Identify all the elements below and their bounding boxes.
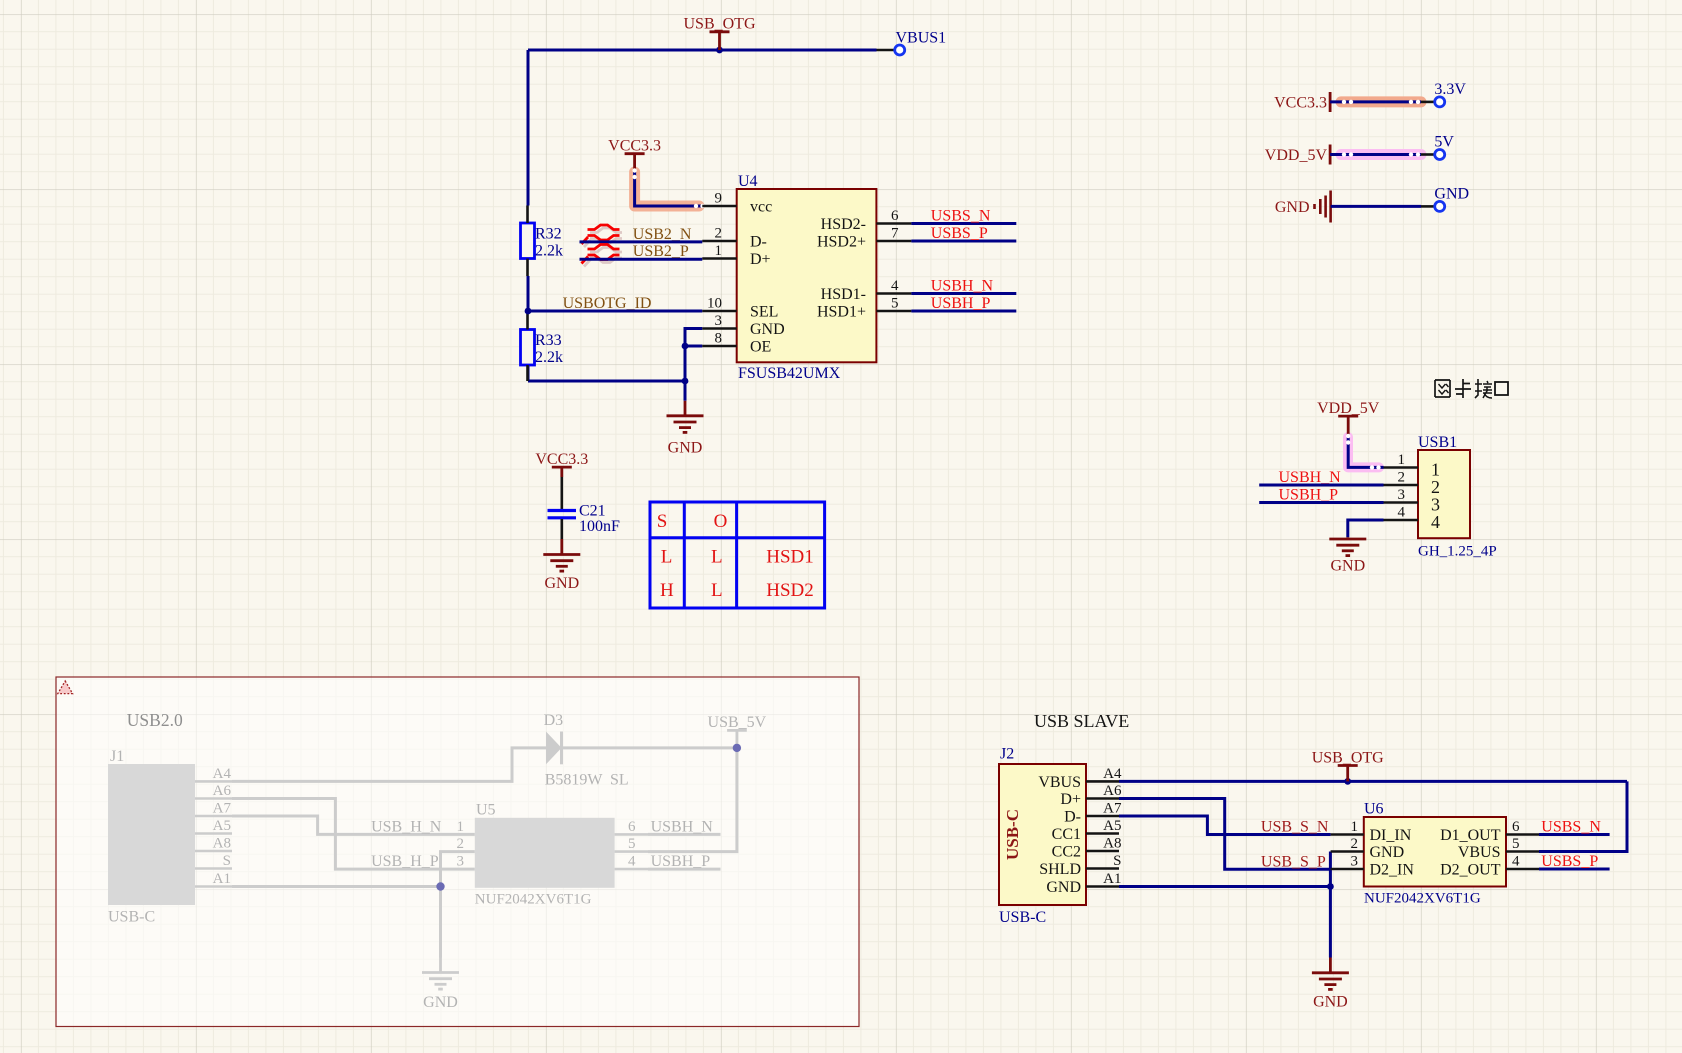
svg-text:L: L: [711, 547, 723, 568]
svg-text:OE: OE: [750, 339, 771, 356]
svg-text:1: 1: [715, 243, 723, 259]
svg-text:GND: GND: [1275, 199, 1310, 216]
svg-text:D1_OUT: D1_OUT: [1440, 827, 1501, 844]
wire VDD_5V to 5V pin: [1330, 153, 1434, 156]
svg-text:6: 6: [628, 819, 636, 835]
wire USB_OTG vertical: [527, 50, 530, 206]
connector J2 USB-C: [999, 746, 1122, 927]
svg-text:R32: R32: [535, 226, 562, 243]
svg-text:HSD1+: HSD1+: [817, 304, 866, 321]
wire USBH_N to USB1: [1259, 484, 1383, 487]
svg-text:4: 4: [1512, 854, 1520, 870]
svg-text:S: S: [223, 853, 231, 869]
truth table: [650, 502, 825, 608]
svg-text:A7: A7: [213, 801, 232, 817]
diff-pair directive USB2_N: [582, 225, 623, 247]
highlight glow VCC3.3 wire: [635, 172, 699, 206]
svg-text:3: 3: [457, 854, 465, 870]
svg-text:GND: GND: [668, 440, 703, 457]
svg-text:USBH_P: USBH_P: [931, 295, 991, 312]
chip U6 NUF2042XV6T1G: [1331, 801, 1539, 907]
svg-text:USB_S_P: USB_S_P: [1261, 853, 1326, 870]
wire R32 to junction: [527, 276, 530, 311]
diode D3 B5819W (masked): [544, 712, 629, 789]
svg-text:USBH_P: USBH_P: [651, 853, 711, 870]
svg-text:D+: D+: [750, 251, 771, 268]
wire A6 to USB_H_P (masked): [232, 799, 475, 870]
ground GND under U4: [667, 401, 704, 457]
svg-text:2: 2: [715, 226, 723, 242]
svg-text:CC2: CC2: [1052, 844, 1081, 861]
svg-text:GND: GND: [1434, 186, 1469, 203]
svg-text:USBS_P: USBS_P: [931, 225, 988, 242]
svg-text:HSD2+: HSD2+: [817, 234, 866, 251]
title 网卡接口: [1435, 379, 1508, 398]
svg-text:USB_S_N: USB_S_N: [1261, 819, 1329, 836]
wire GND to GND pin: [1331, 205, 1435, 208]
svg-text:VCC3.3: VCC3.3: [608, 138, 661, 155]
svg-text:SEL: SEL: [750, 304, 778, 321]
svg-text:NUF2042XV6T1G: NUF2042XV6T1G: [475, 892, 592, 908]
svg-text:HSD1: HSD1: [766, 547, 814, 568]
svg-text:VCC3.3: VCC3.3: [1274, 95, 1327, 112]
junction GND bottom: [1327, 883, 1334, 890]
svg-text:D+: D+: [1060, 791, 1081, 808]
svg-text:GH_1.25_4P: GH_1.25_4P: [1418, 544, 1497, 560]
svg-text:5: 5: [1512, 836, 1520, 852]
wire USBH_P right (masked): [648, 853, 721, 870]
svg-text:D2_IN: D2_IN: [1370, 862, 1415, 879]
highlight glow VCC3.3 top-right: [1341, 96, 1421, 107]
svg-text:J1: J1: [110, 748, 124, 765]
wire D3 to USB_5V junction (masked): [562, 746, 737, 749]
resistor R32: [521, 206, 564, 277]
wire USBS_P out: [1539, 853, 1610, 870]
power port VCC3.3 at C21: [535, 451, 588, 477]
svg-text:VBUS: VBUS: [1038, 774, 1081, 791]
chip U5 NUF2042XV6T1G (masked): [457, 802, 649, 908]
wire VCC3.3 to 3.3V pin: [1330, 100, 1434, 103]
svg-text:USBH_N: USBH_N: [651, 818, 714, 835]
svg-text:HSD2: HSD2: [766, 580, 814, 601]
svg-text:A5: A5: [213, 818, 231, 834]
op-amp U4 FSUSB42UMX: [702, 173, 911, 382]
svg-text:L: L: [661, 547, 673, 568]
wire A7 to USB_H_N (masked): [232, 816, 475, 834]
selection dots VCC3.3 wire: [632, 168, 704, 208]
net label USB_H_P (masked): [371, 853, 439, 870]
net label USBH_P at USB1: [1279, 487, 1339, 504]
svg-text:USB_OTG: USB_OTG: [1312, 749, 1384, 766]
svg-text:USB-C: USB-C: [108, 909, 155, 926]
svg-text:R33: R33: [535, 332, 562, 349]
svg-text:USB-C: USB-C: [1003, 809, 1022, 860]
svg-text:10: 10: [707, 296, 722, 312]
wire USBS_P: [911, 225, 1016, 242]
svg-text:USB_5V: USB_5V: [708, 714, 767, 731]
svg-text:U4: U4: [738, 173, 758, 190]
svg-text:DI_IN: DI_IN: [1370, 827, 1412, 844]
svg-text:D3: D3: [544, 712, 564, 729]
section title USB2.0: [127, 710, 183, 730]
net label USB_S_P: [1261, 853, 1326, 870]
pin VBUS1: [877, 30, 947, 56]
wire VCC3.3 to pin9: [635, 170, 703, 206]
svg-text:USB_H_P: USB_H_P: [371, 853, 439, 870]
svg-text:A1: A1: [213, 871, 231, 887]
net label USBH_N at USB1: [1279, 469, 1342, 486]
ground GND (masked): [422, 958, 459, 1012]
wire D- to USB_S_N: [1119, 816, 1331, 835]
power port VDD_5V right: [1265, 145, 1330, 165]
power port USB_5V (masked): [708, 714, 767, 748]
svg-text:3: 3: [1351, 854, 1359, 870]
ground GND right: [1275, 191, 1331, 223]
connector USB1 GH_1.25_4P: [1384, 434, 1497, 560]
svg-text:4: 4: [1431, 512, 1440, 532]
svg-text:SL: SL: [610, 772, 629, 789]
svg-text:3: 3: [715, 313, 723, 329]
junction A1 GND (masked): [436, 882, 444, 890]
net label USBOTG_ID: [563, 295, 652, 312]
wire D+: [580, 258, 703, 261]
svg-text:VBUS: VBUS: [1458, 844, 1501, 861]
svg-text:VDD_5V: VDD_5V: [1265, 147, 1328, 164]
svg-text:vcc: vcc: [750, 199, 772, 216]
wire pin8 OE branch: [685, 345, 702, 348]
wire U6 pin2 to GND: [1329, 852, 1332, 958]
highlight glow VDD_5V at USB1: [1348, 437, 1379, 467]
svg-text:CC1: CC1: [1052, 826, 1081, 843]
power port VCC3.3 at U4: [608, 138, 661, 170]
svg-text:A8: A8: [213, 836, 231, 852]
svg-text:U5: U5: [476, 802, 496, 819]
wire USBH_P from U4: [911, 295, 1016, 312]
ground GND under U6: [1312, 958, 1349, 1011]
wire USBH_N right (masked): [648, 818, 721, 835]
svg-text:6: 6: [1512, 819, 1520, 835]
wire USBS_N out: [1539, 819, 1610, 836]
wire USB_OTG horizontal: [528, 49, 877, 52]
svg-text:SHLD: SHLD: [1039, 861, 1081, 878]
svg-text:3: 3: [1398, 487, 1406, 503]
svg-text:USBOTG_ID: USBOTG_ID: [563, 295, 652, 312]
svg-text:USB_OTG: USB_OTG: [683, 16, 755, 33]
svg-text:2: 2: [457, 836, 465, 852]
svg-text:H: H: [660, 580, 674, 601]
svg-text:A1: A1: [1103, 871, 1121, 887]
svg-text:GND: GND: [544, 575, 579, 592]
svg-text:4: 4: [1398, 505, 1406, 521]
svg-text:USBH_N: USBH_N: [931, 278, 994, 295]
svg-text:D-: D-: [750, 234, 767, 251]
connector J1 USB-C (masked): [108, 748, 232, 926]
svg-text:7: 7: [891, 226, 899, 242]
junction bottom wire: [682, 378, 689, 385]
junction USB_OTG bottom: [1344, 778, 1351, 785]
svg-text:A4: A4: [213, 766, 232, 782]
svg-text:HSD1-: HSD1-: [821, 286, 866, 303]
svg-text:HSD2-: HSD2-: [821, 216, 866, 233]
svg-text:USBS_P: USBS_P: [1541, 853, 1598, 870]
net label USB_S_N: [1261, 819, 1329, 836]
highlight glow VDD_5V top-right: [1341, 149, 1421, 160]
svg-text:2.2k: 2.2k: [535, 243, 563, 260]
svg-text:A5: A5: [1103, 818, 1121, 834]
svg-text:L: L: [711, 580, 723, 601]
svg-text:S: S: [1113, 853, 1121, 869]
svg-text:8: 8: [715, 331, 723, 347]
power port USB_OTG bottom: [1312, 749, 1384, 781]
svg-text:5V: 5V: [1434, 134, 1454, 151]
svg-text:1: 1: [1351, 819, 1359, 835]
wire VBUS A4 long: [1119, 781, 1627, 851]
svg-text:GND: GND: [423, 994, 458, 1011]
svg-text:9: 9: [715, 191, 723, 207]
svg-text:USBH_P: USBH_P: [1279, 487, 1339, 504]
wire USBH_N from U4: [911, 278, 1016, 295]
svg-text:A4: A4: [1103, 766, 1122, 782]
wire USBOTG_ID: [528, 310, 702, 313]
selection dots VDD_5V wire: [1346, 434, 1381, 470]
svg-text:VDD_5V: VDD_5V: [1317, 400, 1380, 417]
selection dots 5V wire: [1342, 152, 1420, 156]
svg-text:VCC3.3: VCC3.3: [535, 451, 588, 468]
svg-text:USB2_N: USB2_N: [633, 226, 692, 243]
pin 3.3V: [1434, 81, 1466, 107]
wire USBH_P to USB1: [1259, 501, 1383, 504]
wire pin4 to GND: [1348, 520, 1384, 537]
svg-text:6: 6: [891, 208, 899, 224]
wire VDD_5V to pin1: [1348, 435, 1383, 468]
svg-text:GND: GND: [750, 321, 785, 338]
svg-text:A6: A6: [213, 783, 232, 799]
ground GND under C21: [543, 539, 580, 592]
svg-text:GND: GND: [1313, 994, 1348, 1011]
resistor R33: [521, 311, 564, 381]
svg-text:1: 1: [1398, 452, 1406, 468]
section title USB SLAVE: [1034, 711, 1129, 731]
svg-text:A7: A7: [1103, 801, 1122, 817]
svg-text:J2: J2: [1000, 746, 1014, 763]
ground GND under USB1: [1329, 537, 1366, 574]
svg-text:2.2k: 2.2k: [535, 349, 563, 366]
svg-text:A8: A8: [1103, 836, 1121, 852]
svg-text:GND: GND: [1046, 879, 1081, 896]
svg-text:A6: A6: [1103, 783, 1122, 799]
svg-text:S: S: [657, 511, 668, 532]
junction under USB_OTG port: [716, 47, 723, 54]
pin 5V: [1434, 134, 1454, 160]
junction USBOTG_ID: [525, 308, 532, 315]
svg-text:O: O: [714, 511, 728, 532]
svg-text:GND: GND: [1370, 844, 1405, 861]
svg-text:4: 4: [628, 854, 636, 870]
wire USBS_N: [911, 208, 1016, 225]
wire USB_5V down to pin5 (masked): [648, 748, 737, 852]
svg-text:FSUSB42UMX: FSUSB42UMX: [738, 365, 841, 382]
svg-text:USBS_N: USBS_N: [1541, 819, 1601, 836]
svg-text:5: 5: [891, 296, 899, 312]
svg-text:USB2.0: USB2.0: [127, 710, 183, 730]
svg-text:USB-C: USB-C: [999, 909, 1046, 926]
svg-text:2: 2: [1351, 836, 1359, 852]
svg-text:5: 5: [628, 836, 636, 852]
power port VDD_5V at USB1: [1317, 400, 1380, 435]
power port VCC3.3 right: [1274, 92, 1330, 112]
svg-text:USB SLAVE: USB SLAVE: [1034, 711, 1129, 731]
wire A1 GND: [1119, 885, 1330, 888]
svg-text:USBS_N: USBS_N: [931, 208, 991, 225]
svg-text:D2_OUT: D2_OUT: [1440, 862, 1501, 879]
svg-text:C21: C21: [579, 502, 606, 519]
svg-text:B5819W: B5819W: [545, 772, 604, 789]
svg-text:3.3V: 3.3V: [1434, 81, 1466, 98]
svg-text:100nF: 100nF: [579, 518, 620, 535]
svg-text:4: 4: [891, 278, 899, 294]
svg-text:VBUS1: VBUS1: [896, 30, 947, 47]
capacitor C21: [548, 477, 621, 539]
wire D+ to USB_S_P: [1119, 799, 1331, 870]
svg-text:U6: U6: [1364, 801, 1384, 818]
net label USB2_P: [633, 243, 689, 260]
junction USB_5V (masked): [733, 744, 741, 752]
diff-pair directive USB2_P: [582, 245, 623, 267]
svg-text:2: 2: [1398, 470, 1406, 486]
svg-text:USB2_P: USB2_P: [633, 243, 689, 260]
selection dots 3.3V wire: [1342, 100, 1420, 104]
junction OE: [682, 343, 689, 350]
wire A1 GND run (masked): [232, 885, 441, 888]
svg-text:USB_H_N: USB_H_N: [371, 818, 442, 835]
svg-text:GND: GND: [1330, 558, 1365, 575]
pin GND: [1434, 186, 1469, 212]
wire U5 pin2 to GND (masked): [441, 852, 475, 958]
wire R33 bottom to GND run: [528, 365, 685, 381]
svg-text:USBH_N: USBH_N: [1279, 469, 1342, 486]
power port USB_OTG: [683, 16, 755, 50]
masked region overlay: [56, 677, 859, 1027]
wire pin3 GND branch: [685, 329, 702, 401]
svg-text:NUF2042XV6T1G: NUF2042XV6T1G: [1364, 891, 1481, 907]
wire A4 to D3 (masked): [232, 748, 546, 782]
svg-text:1: 1: [457, 819, 465, 835]
net label USB_H_N (masked): [371, 818, 442, 835]
net label USB2_N: [633, 226, 692, 243]
svg-text:USB1: USB1: [1418, 434, 1457, 451]
warning triangle: [58, 681, 73, 694]
svg-text:D-: D-: [1064, 809, 1081, 826]
wire D-: [580, 240, 703, 243]
